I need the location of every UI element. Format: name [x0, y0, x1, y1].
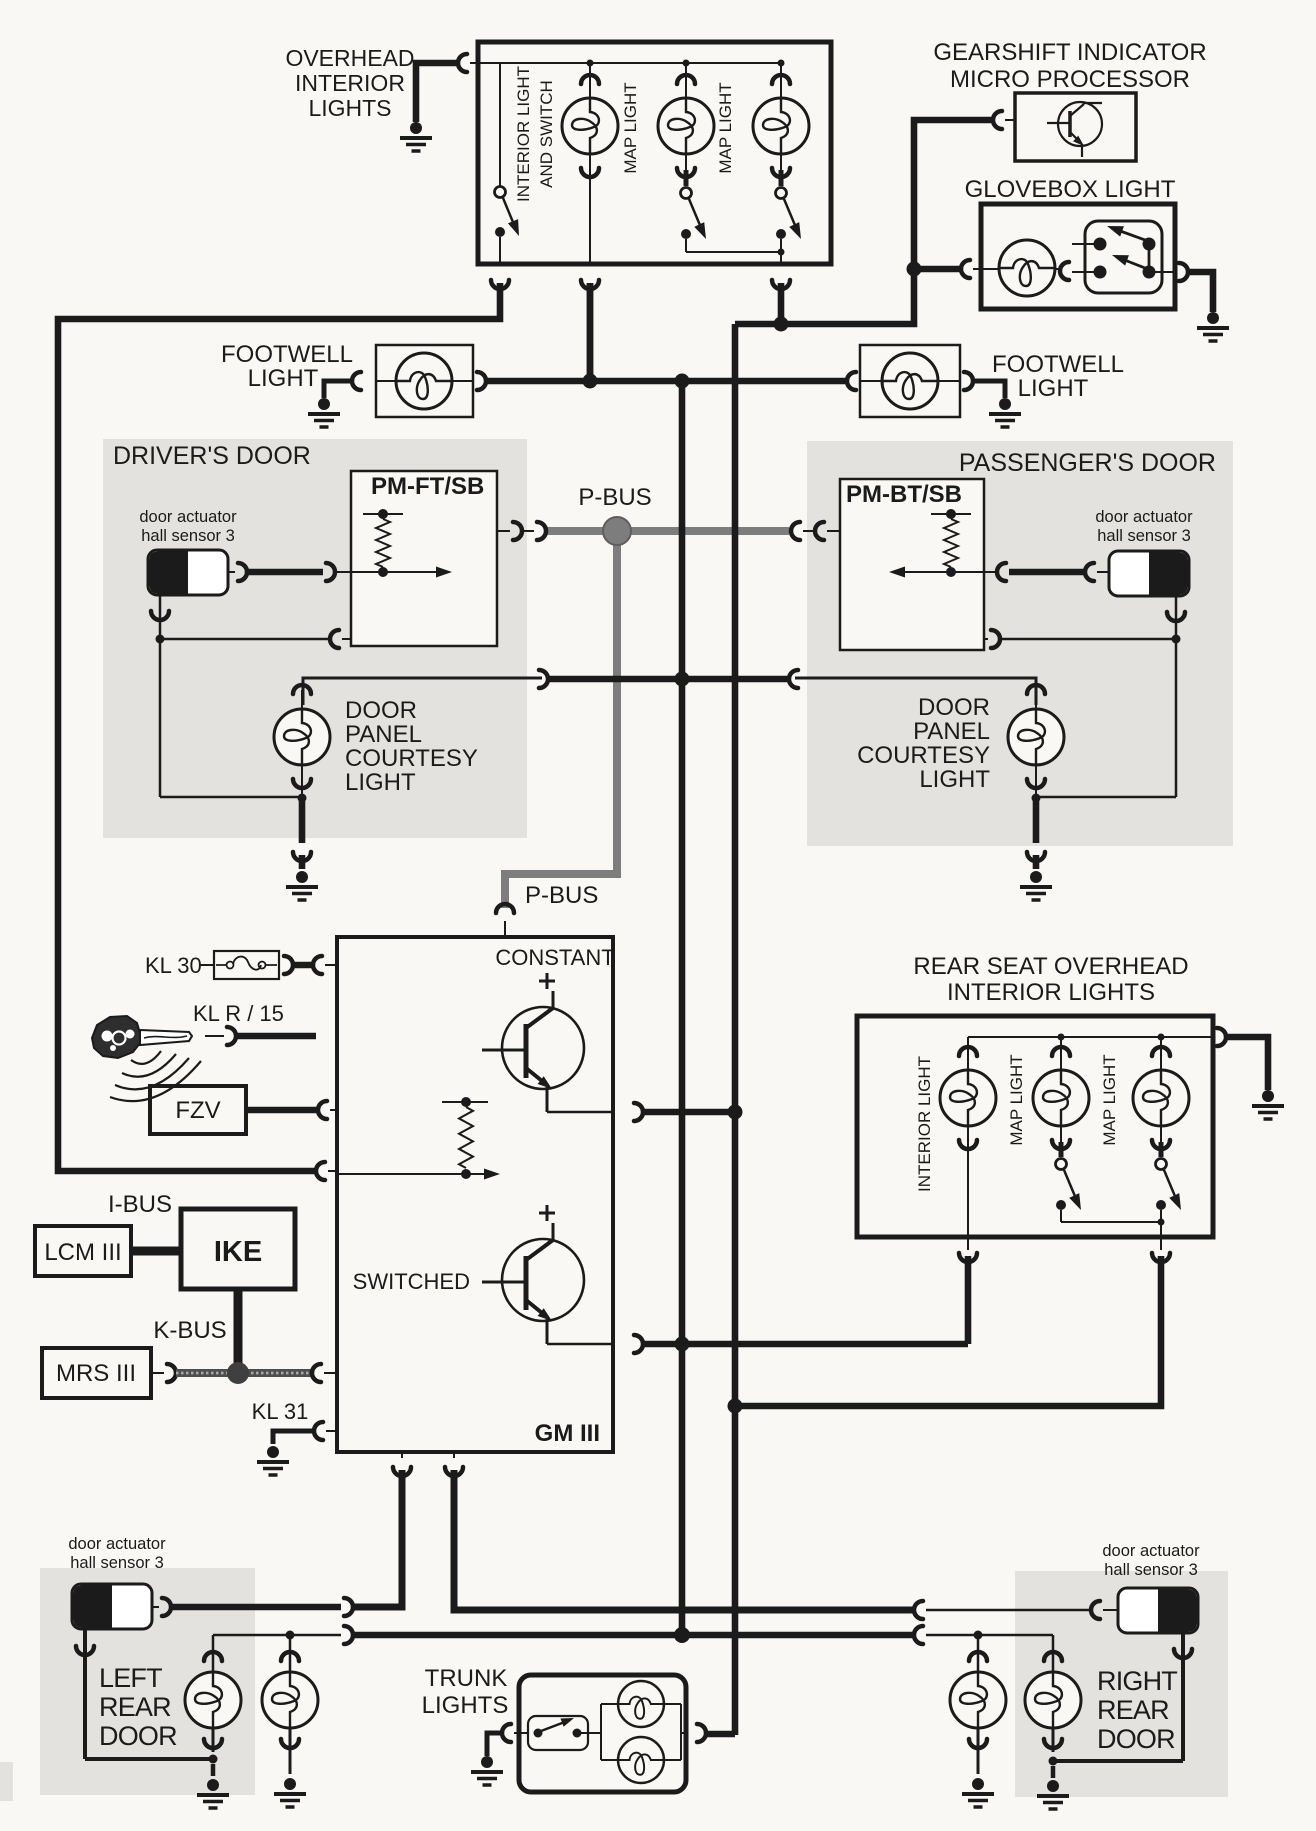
trunk lamps parallel pair [581, 1732, 601, 1734]
rear seat lights box [857, 1016, 1213, 1237]
wire: top distribution from overhead lamps exit across to gearshift riser [735, 120, 993, 324]
KL 31 ground input [273, 1431, 314, 1444]
lamp: door panel courtesy light (driver) [293, 685, 311, 694]
svg-text:RIGHT: RIGHT [1097, 1666, 1177, 1696]
svg-text:PM-FT/SB: PM-FT/SB [371, 473, 484, 500]
wire GM III to right rear sensor [914, 1601, 923, 1619]
I-BUS link [131, 1247, 181, 1256]
svg-text:MRS III: MRS III [56, 1360, 136, 1387]
resistor GM III [442, 1101, 488, 1103]
glovebox switch block [1085, 221, 1162, 293]
dimmer input arrow [337, 1173, 486, 1175]
wire GM III pin to right rear door sensor [454, 1470, 913, 1610]
junction glovebox feed [907, 262, 922, 277]
junction SWITCHED / spine A [675, 1337, 690, 1352]
passenger's door shaded region [807, 441, 1233, 846]
svg-text:REAR: REAR [1097, 1695, 1169, 1725]
connector footwell left out [477, 372, 486, 390]
footwell light box (right) [847, 372, 856, 390]
rail exit to ground [1206, 1036, 1213, 1038]
lamp: footwell right [882, 353, 938, 409]
switch return rail [686, 251, 781, 253]
svg-text:door actuator: door actuator [1102, 1542, 1200, 1560]
K-BUS wire MRS III to GM III [151, 1372, 164, 1374]
lamp: right rear (outer) [977, 1635, 980, 1672]
wire PM-FT/SB lower to sensor return [330, 630, 339, 648]
fuse KL 30 [214, 951, 279, 979]
svg-text:P-BUS: P-BUS [525, 882, 598, 909]
svg-text:TRUNK: TRUNK [425, 1665, 508, 1692]
wire right rear sensor bottom [1181, 1633, 1185, 1761]
lamp: door panel courtesy light (passenger) [1027, 685, 1045, 694]
wire: overhead feed with ground [416, 63, 458, 122]
wire sensor to PM-FT/SB [228, 571, 235, 573]
lamp: interior light [589, 63, 591, 98]
connector into overhead box [458, 54, 467, 72]
lamp: left rear door courtesy (inner) [212, 1635, 215, 1672]
svg-text:door actuator: door actuator [139, 508, 237, 526]
svg-text:hall sensor 3: hall sensor 3 [1104, 1561, 1198, 1579]
P-BUS gray horizontal [545, 527, 789, 535]
svg-text:MICRO PROCESSOR: MICRO PROCESSOR [950, 66, 1190, 93]
svg-text:PANEL: PANEL [913, 718, 990, 745]
module GM III [337, 937, 613, 1452]
svg-text:PASSENGER'S DOOR: PASSENGER'S DOOR [959, 449, 1216, 477]
switch contacts lower [1094, 266, 1107, 279]
junction sensor return (passenger) [1172, 635, 1181, 644]
trunk switch [514, 1732, 528, 1734]
svg-text:MAP LIGHT: MAP LIGHT [1007, 1054, 1026, 1145]
wire GM III pin to left rear door sensor [353, 1470, 402, 1607]
lamp: rear map light (right) [1160, 1037, 1162, 1070]
wire: footwell feed line y=381 [486, 378, 847, 385]
svg-text:MAP LIGHT: MAP LIGHT [1100, 1054, 1119, 1145]
wire to ground (passenger courtesy) [1033, 800, 1040, 843]
transistor SWITCHED [539, 1205, 555, 1221]
svg-text:OVERHEAD: OVERHEAD [285, 45, 414, 71]
left rear door shaded region [40, 1568, 255, 1795]
wire: glovebox feed from riser [914, 266, 961, 273]
svg-text:SWITCHED: SWITCHED [353, 1269, 470, 1294]
hall sensor 3 (right rear) [1118, 1588, 1198, 1633]
svg-text:hall sensor 3: hall sensor 3 [1097, 527, 1191, 545]
connector SWITCHED out [634, 1335, 643, 1353]
svg-text:INTERIOR LIGHT: INTERIOR LIGHT [514, 66, 533, 202]
svg-text:IKE: IKE [214, 1236, 262, 1268]
switch: interior light and switch [499, 63, 501, 186]
svg-text:PANEL: PANEL [345, 721, 422, 748]
overhead interior lights box U100 [478, 42, 831, 264]
wire: courtesy light line y=679 driver side thick [548, 676, 789, 683]
junction spine A / footwell line [675, 374, 690, 389]
svg-text:FZV: FZV [175, 1097, 220, 1124]
hall sensor 3 (driver) [148, 550, 228, 595]
svg-text:CONSTANT: CONSTANT [495, 945, 614, 970]
svg-text:DOOR: DOOR [345, 697, 417, 724]
junction spine A / lamp feed [674, 1627, 690, 1643]
connector CONSTANT out [634, 1103, 643, 1121]
svg-text:FOOTWELL: FOOTWELL [992, 351, 1124, 378]
wire left rear sensor to GM III [152, 1606, 159, 1608]
wire courtesy light branch (driver) [303, 678, 542, 705]
junction overhead drop / distribution [774, 317, 789, 332]
switch: rear map light (left) [1056, 1159, 1067, 1170]
svg-text:KL R / 15: KL R / 15 [193, 1001, 284, 1026]
wire/ground footwell left [324, 381, 352, 398]
lamp: rear interior light [967, 1037, 969, 1070]
lamp: map light (left) [685, 63, 687, 98]
inner supply rail [968, 1036, 1206, 1038]
switch: map light (left) [681, 188, 692, 199]
connector lamp-switch [1060, 262, 1069, 280]
svg-text:LIGHT: LIGHT [345, 769, 416, 796]
wire sensor bottom down (driver) [159, 595, 162, 797]
switch return rail [1061, 1221, 1161, 1223]
connector big feed into GM III [316, 1162, 325, 1180]
junction map return / spine B [728, 1399, 743, 1414]
switch: rear map light (right) [1156, 1159, 1167, 1170]
wire PM-BT/SB lower to sensor return [984, 638, 988, 640]
trunk lights ground feed [487, 1733, 502, 1756]
wire PM-FT/SB to P-BUS [497, 530, 510, 532]
svg-text:INTERIOR LIGHTS: INTERIOR LIGHTS [947, 979, 1155, 1006]
svg-text:PM-BT/SB: PM-BT/SB [846, 481, 962, 508]
svg-text:hall sensor 3: hall sensor 3 [141, 527, 235, 545]
wire sensor to PM-BT/SB [984, 571, 997, 573]
svg-text:P-BUS: P-BUS [578, 484, 651, 511]
svg-text:LIGHTS: LIGHTS [422, 1692, 509, 1719]
P-BUS gray vertical and bend into GM III [505, 531, 617, 908]
module PM-BT/SB [840, 479, 984, 650]
svg-text:FOOTWELL: FOOTWELL [221, 341, 353, 368]
driver's door shaded region [103, 439, 527, 838]
K-BUS junction [227, 1362, 249, 1384]
lamp: map light (right) [780, 63, 782, 98]
wire: vertical spine B x=735 [732, 324, 739, 1735]
svg-text:hall sensor 3: hall sensor 3 [70, 1554, 164, 1572]
lamp: right rear door courtesy (inner) [1052, 1635, 1055, 1672]
svg-text:GEARSHIFT INDICATOR: GEARSHIFT INDICATOR [933, 39, 1206, 66]
svg-text:DRIVER'S DOOR: DRIVER'S DOOR [113, 442, 311, 470]
inner supply rail [500, 62, 781, 64]
svg-text:INTERIOR: INTERIOR [295, 70, 405, 96]
svg-text:MAP LIGHT: MAP LIGHT [716, 82, 735, 173]
junction spine A / courtesy line [675, 672, 690, 687]
switch: map light (right) [776, 188, 787, 199]
lamp: footwell left [396, 353, 452, 409]
wire to ground (driver courtesy) [299, 800, 306, 843]
junction lamp/sensor (left rear) [209, 1755, 218, 1764]
junction sensor return (driver) [156, 635, 165, 644]
junction CONSTANT / spine B [728, 1105, 743, 1120]
wire: overhead switch feed, left tall run from (500,319) to GM input [58, 283, 500, 1171]
connector into glovebox box [961, 260, 970, 278]
K-BUS drop from IKE [234, 1289, 243, 1367]
radio wave arcs [131, 1051, 161, 1064]
gearshift indicator box [1015, 93, 1136, 161]
junction courtesy/sensor (passenger) [1032, 794, 1041, 803]
wire left rear sensor bottom [83, 1630, 87, 1759]
wire: vertical spine A x=682 [679, 381, 686, 1635]
svg-text:LIGHT: LIGHT [919, 766, 990, 793]
junction interior lamp drop [583, 374, 598, 389]
remote key icon [92, 1016, 140, 1058]
svg-text:door actuator: door actuator [68, 1535, 166, 1553]
svg-text:REAR: REAR [99, 1692, 171, 1722]
stray gray scan mark left margin [0, 1762, 13, 1801]
svg-text:GLOVEBOX LIGHT: GLOVEBOX LIGHT [965, 176, 1176, 203]
box exit connectors [491, 280, 509, 289]
transistor (gearshift) [1058, 102, 1102, 146]
svg-text:KL 31: KL 31 [252, 1399, 309, 1424]
wire SWITCHED to rear seat interior lamp [965, 1256, 972, 1344]
resistor in PM-BT/SB [931, 513, 971, 515]
svg-text:INTERIOR LIGHT: INTERIOR LIGHT [915, 1056, 934, 1192]
right rear door shaded region [1015, 1571, 1228, 1797]
wire/ground footwell right [973, 381, 1005, 398]
svg-text:COURTESY: COURTESY [857, 742, 990, 769]
lamp: left rear (outer) [289, 1635, 292, 1672]
transistor CONSTANT [539, 973, 555, 989]
svg-text:KL 30: KL 30 [145, 953, 202, 978]
svg-text:I-BUS: I-BUS [108, 1191, 172, 1218]
module MRS III [42, 1348, 151, 1398]
svg-text:AND SWITCH: AND SWITCH [537, 80, 556, 188]
svg-text:GM III: GM III [535, 1420, 600, 1447]
svg-text:COURTESY: COURTESY [345, 745, 478, 772]
wire: overhead lamps 2-3 drop to distribution [778, 283, 785, 324]
lamp: rear map light (left) [1060, 1037, 1062, 1070]
svg-text:LIGHTS: LIGHTS [308, 95, 391, 121]
footwell light box (left) [376, 345, 473, 417]
P-BUS node circle [603, 517, 631, 545]
arrow output PM-BT/SB [903, 571, 984, 573]
svg-text:REAR SEAT OVERHEAD: REAR SEAT OVERHEAD [913, 953, 1188, 980]
connector P-BUS into GM III top [496, 904, 514, 913]
wire courtesy light branch (passenger) [795, 678, 1036, 705]
svg-text:LIGHT: LIGHT [1018, 375, 1089, 402]
svg-text:K-BUS: K-BUS [153, 1317, 226, 1344]
junction courtesy/sensor (driver) [298, 794, 307, 803]
svg-text:DOOR: DOOR [1097, 1724, 1175, 1754]
svg-text:DOOR: DOOR [99, 1721, 177, 1751]
wire sensor bottom down (passenger) [1175, 596, 1178, 797]
svg-text:DOOR: DOOR [918, 694, 990, 721]
ground overhead feed [400, 122, 432, 151]
wire: interior lamp drop x=590 [587, 283, 594, 381]
module LCM III [35, 1226, 131, 1276]
module IKE [181, 1209, 295, 1289]
resistor in PM-FT/SB [363, 513, 403, 515]
svg-text:door actuator: door actuator [1095, 508, 1193, 526]
trunk lights box [519, 1675, 686, 1792]
connector into gearshift box [993, 111, 1002, 129]
main lamp feed line across bottom [353, 1632, 913, 1639]
module PM-FT/SB [351, 471, 497, 646]
wire PM-BT/SB to P-BUS [827, 530, 840, 532]
module FZV [150, 1086, 246, 1134]
wire rear map return to spine B [735, 1256, 1161, 1406]
junction lamp/sensor (right rear) [1049, 1757, 1058, 1766]
svg-text:LIGHT: LIGHT [248, 365, 319, 392]
svg-text:MAP LIGHT: MAP LIGHT [621, 82, 640, 173]
GM III bottom exits [393, 1467, 411, 1476]
arrow output PM-FT/SB [351, 571, 438, 573]
svg-text:LEFT: LEFT [99, 1663, 162, 1693]
lamp feed line lower left [213, 1634, 341, 1637]
lamp: glovebox [999, 240, 1055, 296]
glovebox exit to ground [1155, 271, 1175, 273]
svg-text:LCM III: LCM III [44, 1239, 121, 1266]
trunk exit to spine B [697, 1724, 706, 1742]
hall sensor 3 (passenger) [1109, 551, 1189, 596]
hall sensor 3 (left rear) [72, 1584, 152, 1629]
glovebox light box [981, 204, 1175, 309]
switch contacts upper [1094, 238, 1107, 251]
